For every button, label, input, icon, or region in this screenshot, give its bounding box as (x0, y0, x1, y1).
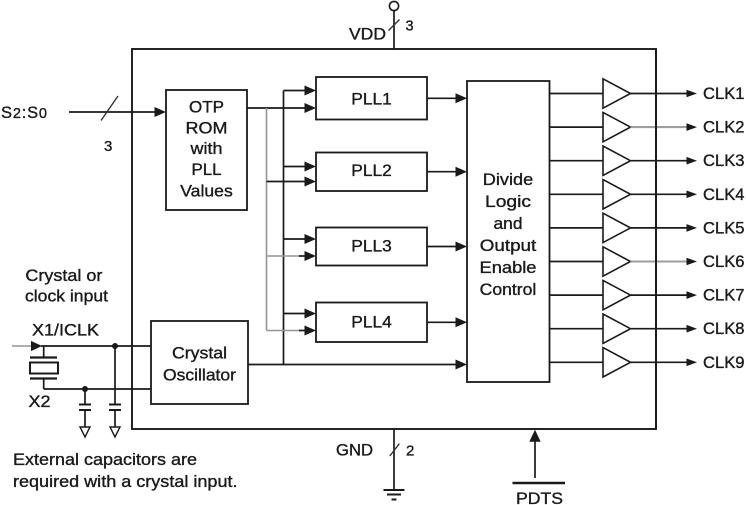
svg-text:CLK8: CLK8 (703, 320, 745, 338)
svg-text:External capacitors are: External capacitors are (13, 451, 197, 469)
svg-text:3: 3 (104, 138, 112, 155)
svg-text:CLK2: CLK2 (703, 119, 745, 137)
svg-text:X2: X2 (29, 393, 51, 411)
svg-text:and: and (494, 215, 523, 233)
svg-text:Crystal or: Crystal or (25, 267, 103, 285)
svg-text:CLK9: CLK9 (703, 354, 745, 372)
svg-text:PLL2: PLL2 (351, 162, 392, 180)
svg-text:S2:S0: S2:S0 (1, 104, 48, 122)
svg-text:GND: GND (336, 442, 373, 460)
svg-text:CLK1: CLK1 (703, 85, 745, 103)
svg-text:CLK5: CLK5 (703, 219, 745, 237)
svg-text:Enable: Enable (480, 259, 537, 277)
svg-text:CLK7: CLK7 (703, 287, 745, 305)
svg-text:2: 2 (406, 443, 414, 460)
svg-text:Crystal: Crystal (172, 345, 227, 363)
svg-text:Output: Output (480, 237, 537, 255)
svg-text:ROM: ROM (186, 120, 228, 138)
svg-text:Control: Control (480, 281, 537, 299)
svg-text:Oscillator: Oscillator (163, 367, 237, 385)
svg-text:PLL4: PLL4 (351, 314, 392, 332)
svg-text:VDD: VDD (349, 26, 386, 44)
svg-text:clock input: clock input (25, 288, 108, 306)
svg-text:Logic: Logic (485, 193, 531, 211)
svg-text:PLL: PLL (192, 161, 222, 179)
svg-text:with: with (189, 140, 222, 158)
svg-text:3: 3 (406, 19, 414, 35)
svg-text:Divide: Divide (483, 171, 534, 189)
svg-text:Values: Values (180, 183, 233, 201)
svg-text:OTP: OTP (189, 99, 224, 117)
svg-text:X1/ICLK: X1/ICLK (32, 322, 99, 340)
svg-text:required with a crystal input.: required with a crystal input. (13, 473, 238, 491)
svg-text:PLL3: PLL3 (351, 238, 392, 256)
svg-text:CLK3: CLK3 (703, 152, 745, 170)
svg-text:PLL1: PLL1 (351, 91, 392, 109)
svg-text:CLK6: CLK6 (703, 253, 745, 271)
svg-text:PDTS: PDTS (516, 490, 563, 505)
svg-text:CLK4: CLK4 (703, 186, 745, 204)
